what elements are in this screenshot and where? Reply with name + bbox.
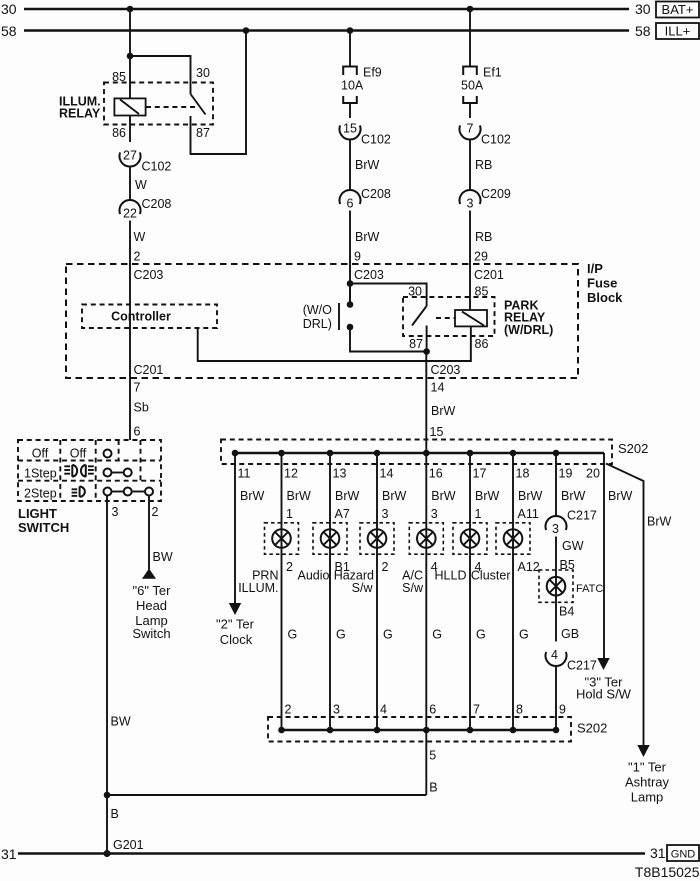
svg-text:DRL): DRL) bbox=[303, 317, 332, 331]
wire W/O DRL lower to junction 87 bbox=[350, 327, 427, 352]
svg-text:BrW: BrW bbox=[355, 230, 380, 244]
wire branch 12 PRN illum bbox=[281, 453, 283, 730]
svg-text:19: 19 bbox=[559, 467, 573, 481]
svg-text:C209: C209 bbox=[481, 187, 511, 201]
svg-text:T8B15025: T8B15025 bbox=[635, 864, 700, 880]
connector C102 pin 27 bbox=[120, 152, 141, 166]
svg-text:Head: Head bbox=[136, 598, 167, 613]
svg-text:Ef1: Ef1 bbox=[483, 66, 502, 80]
svg-text:W: W bbox=[135, 178, 147, 192]
park relay coil-blade link bbox=[436, 317, 455, 319]
svg-text:Clock: Clock bbox=[220, 632, 253, 647]
svg-text:RELAY: RELAY bbox=[59, 107, 101, 121]
wire diagonal to ashtray lamp bbox=[606, 464, 644, 746]
svg-text:BrW: BrW bbox=[355, 158, 380, 172]
svg-text:S202: S202 bbox=[577, 721, 607, 736]
svg-text:Sb: Sb bbox=[134, 401, 149, 415]
junction 87 output bbox=[423, 348, 430, 355]
I/P Fuse Block dashed box bbox=[66, 264, 578, 378]
illum relay coil bbox=[114, 98, 145, 115]
svg-text:9: 9 bbox=[559, 703, 566, 717]
lamp A/C S/w (pins 3/4) bbox=[409, 523, 443, 554]
svg-text:G: G bbox=[519, 628, 529, 642]
wire branch 14 hazard bbox=[376, 453, 378, 730]
wire option W/O DRL upper stub bbox=[349, 284, 351, 305]
wire BrW down to C203 pin 9 bbox=[349, 211, 351, 305]
svg-text:85: 85 bbox=[112, 70, 126, 84]
svg-text:"1" Ter: "1" Ter bbox=[628, 760, 667, 775]
svg-text:Off: Off bbox=[70, 447, 87, 461]
wire branch to park relay contact 30 bbox=[350, 284, 427, 307]
svg-text:10A: 10A bbox=[341, 79, 364, 93]
arrow from 6 Ter Head Lamp Switch bbox=[142, 569, 156, 579]
svg-text:2: 2 bbox=[134, 250, 141, 264]
svg-text:BrW: BrW bbox=[287, 489, 312, 503]
svg-text:87: 87 bbox=[409, 337, 423, 351]
svg-text:6: 6 bbox=[347, 197, 354, 211]
svg-text:Cluster: Cluster bbox=[471, 569, 511, 583]
svg-text:58: 58 bbox=[635, 23, 651, 39]
svg-text:W: W bbox=[134, 230, 146, 244]
lamp Hazard S/w (pins 3/2) bbox=[360, 523, 394, 554]
wire terminal 2 BW to head lamp switch bbox=[148, 496, 150, 570]
svg-text:BrW: BrW bbox=[335, 489, 360, 503]
park relay coil bbox=[455, 310, 487, 326]
illum relay switch blade bbox=[191, 94, 206, 115]
node BAT+ box bbox=[656, 2, 699, 18]
svg-text:C208: C208 bbox=[142, 197, 172, 211]
svg-text:Hold S/W: Hold S/W bbox=[576, 687, 632, 702]
svg-text:B: B bbox=[429, 781, 437, 795]
icon head lamp 2Step bbox=[72, 488, 78, 490]
junctions on bottom splice bbox=[278, 727, 285, 734]
wire illum relay contact 87 down bbox=[191, 31, 247, 155]
park relay switch blade bbox=[412, 306, 427, 326]
svg-text:"2" Ter: "2" Ter bbox=[216, 617, 255, 632]
svg-text:G: G bbox=[432, 628, 442, 642]
svg-text:17: 17 bbox=[473, 467, 487, 481]
wire branch 18 cluster bbox=[512, 453, 514, 730]
lamp PRN ILLUM (pins 1/2) bbox=[265, 523, 299, 554]
relay ILLUM. RELAY dashed box bbox=[104, 83, 213, 125]
svg-text:C208: C208 bbox=[361, 187, 391, 201]
svg-text:BrW: BrW bbox=[647, 515, 672, 529]
wire branch 17 HLLD bbox=[469, 453, 471, 730]
wire GW bbox=[555, 537, 557, 642]
svg-text:4: 4 bbox=[380, 703, 387, 717]
fuse Ef1 50A bbox=[469, 9, 471, 67]
svg-text:1: 1 bbox=[286, 507, 293, 521]
svg-text:G: G bbox=[336, 628, 346, 642]
svg-text:3: 3 bbox=[382, 507, 389, 521]
svg-text:50A: 50A bbox=[461, 79, 484, 93]
wire branch 11 to clock bbox=[234, 453, 236, 603]
arrow to 3 Ter Hold S/W bbox=[597, 658, 609, 670]
splice S202 bus bar bbox=[235, 452, 604, 455]
svg-text:S/w: S/w bbox=[402, 581, 424, 595]
wire branch 16 A/C bbox=[425, 453, 427, 730]
svg-text:2: 2 bbox=[382, 560, 389, 574]
wire coil 86 down to C102 bbox=[129, 116, 131, 143]
splice S202 bottom dashed box bbox=[268, 717, 571, 742]
svg-text:Ef9: Ef9 bbox=[363, 66, 382, 80]
lamp HLLD (pins 1/4) bbox=[453, 523, 487, 554]
controller box bbox=[82, 305, 217, 329]
svg-text:16: 16 bbox=[429, 467, 443, 481]
svg-text:5: 5 bbox=[429, 749, 436, 763]
svg-text:BrW: BrW bbox=[240, 489, 265, 503]
svg-text:1: 1 bbox=[475, 507, 482, 521]
svg-text:S/w: S/w bbox=[352, 581, 374, 595]
switch contacts row1 bbox=[104, 450, 112, 458]
lamp Audio (pins A7/B1) bbox=[313, 523, 347, 554]
connector C102 pin 15 bbox=[340, 125, 361, 139]
svg-text:Ashtray: Ashtray bbox=[625, 775, 670, 790]
wire rail 31 GND bbox=[18, 852, 645, 855]
wire from junction 87 down to S202 pin 15 bbox=[425, 352, 427, 454]
svg-text:Block: Block bbox=[587, 290, 623, 305]
svg-text:C203: C203 bbox=[134, 268, 164, 282]
svg-text:14: 14 bbox=[431, 381, 445, 395]
svg-text:G201: G201 bbox=[113, 838, 144, 852]
svg-text:SWITCH: SWITCH bbox=[18, 520, 69, 535]
svg-text:BrW: BrW bbox=[382, 489, 407, 503]
svg-text:85: 85 bbox=[475, 285, 489, 299]
svg-text:22: 22 bbox=[123, 207, 137, 221]
junction pins 11-19 on S202 bbox=[232, 450, 239, 457]
svg-text:1Step: 1Step bbox=[24, 467, 57, 481]
svg-text:C217: C217 bbox=[567, 659, 597, 673]
option bar bbox=[338, 303, 340, 330]
svg-text:18: 18 bbox=[516, 467, 530, 481]
wire B to ground run bbox=[107, 794, 427, 796]
wire rail 58 ILL+ bbox=[24, 29, 629, 32]
light switch row dividers bbox=[18, 460, 161, 462]
svg-text:8: 8 bbox=[516, 703, 523, 717]
wire W down to C203 pin 2 bbox=[129, 221, 131, 441]
node GND box bbox=[667, 845, 699, 861]
svg-text:BrW: BrW bbox=[608, 489, 633, 503]
svg-text:BrW: BrW bbox=[475, 489, 500, 503]
wire rail 30 BAT+ bbox=[24, 8, 629, 11]
junction with splice output bbox=[104, 792, 111, 799]
svg-text:RB: RB bbox=[475, 158, 492, 172]
wire W between C102 and C208 bbox=[129, 167, 131, 201]
svg-text:7: 7 bbox=[473, 703, 480, 717]
splice S202 bottom bus bar bbox=[282, 729, 557, 732]
splice S202 top dashed box bbox=[221, 440, 612, 465]
svg-text:BAT+: BAT+ bbox=[662, 2, 694, 17]
svg-text:I/P: I/P bbox=[587, 261, 603, 276]
svg-text:15: 15 bbox=[430, 425, 444, 439]
junction W/O DRL top bbox=[347, 280, 354, 287]
wire from rail 30 down to illum relay bbox=[129, 9, 131, 98]
lamp Cluster (pins A11/A12) bbox=[496, 523, 530, 554]
svg-text:Audio: Audio bbox=[298, 569, 330, 583]
svg-text:86: 86 bbox=[112, 126, 126, 140]
wire RB between C102-7 and C209-3 bbox=[469, 140, 471, 191]
svg-text:A11: A11 bbox=[518, 507, 539, 521]
wire splice output pin 5 bbox=[425, 730, 427, 795]
icon park lamps 1Step bbox=[64, 465, 70, 467]
light switch box bbox=[18, 440, 161, 501]
svg-text:29: 29 bbox=[474, 250, 488, 264]
svg-text:3: 3 bbox=[552, 522, 559, 536]
svg-text:14: 14 bbox=[380, 467, 394, 481]
junction W/O DRL upper bbox=[347, 301, 354, 308]
connector C217 pin 3 bbox=[546, 516, 567, 530]
svg-text:C102: C102 bbox=[481, 133, 511, 147]
svg-text:7: 7 bbox=[467, 122, 474, 136]
svg-text:C217: C217 bbox=[567, 509, 597, 523]
svg-text:G: G bbox=[383, 628, 393, 642]
wire branch 20 to hold switch bbox=[603, 453, 605, 660]
svg-text:S202: S202 bbox=[618, 441, 648, 456]
svg-text:C203: C203 bbox=[354, 268, 384, 282]
svg-text:BrW: BrW bbox=[431, 489, 456, 503]
svg-text:(W/O: (W/O bbox=[303, 303, 332, 317]
connector C208 pin 22 bbox=[120, 200, 141, 214]
node ILL+ box bbox=[656, 23, 699, 39]
svg-text:G: G bbox=[476, 628, 486, 642]
svg-text:Controller: Controller bbox=[111, 310, 171, 324]
svg-text:BW: BW bbox=[153, 550, 173, 564]
svg-text:27: 27 bbox=[123, 149, 137, 163]
wire terminal 3 down to ground bbox=[106, 496, 108, 854]
illum relay coil-blade link bbox=[146, 106, 197, 108]
svg-text:BrW: BrW bbox=[431, 404, 456, 418]
junction branch to relay contact 30 bbox=[127, 53, 134, 60]
svg-text:GB: GB bbox=[561, 627, 579, 641]
junction W/O DRL lower bbox=[347, 324, 354, 331]
svg-text:7: 7 bbox=[134, 381, 141, 395]
svg-text:2: 2 bbox=[152, 505, 159, 519]
svg-text:87: 87 bbox=[196, 126, 210, 140]
svg-text:RB: RB bbox=[475, 230, 492, 244]
svg-text:3: 3 bbox=[467, 197, 474, 211]
arrow to 1 Ter Ashtray Lamp bbox=[637, 745, 649, 757]
svg-text:Fuse: Fuse bbox=[587, 276, 617, 291]
junction on rail 30 at Ef1 feed bbox=[467, 6, 474, 13]
svg-text:BW: BW bbox=[111, 715, 131, 729]
svg-text:30: 30 bbox=[1, 1, 17, 17]
svg-text:Switch: Switch bbox=[132, 626, 170, 641]
svg-text:(W/DRL): (W/DRL) bbox=[504, 323, 553, 337]
svg-text:15: 15 bbox=[343, 122, 357, 136]
svg-text:C201: C201 bbox=[474, 268, 504, 282]
svg-text:G: G bbox=[288, 628, 298, 642]
connector C102 pin 7 bbox=[460, 125, 481, 139]
svg-text:C102: C102 bbox=[361, 133, 391, 147]
svg-text:BrW: BrW bbox=[561, 489, 586, 503]
svg-text:B4: B4 bbox=[559, 605, 574, 619]
svg-text:6: 6 bbox=[134, 425, 141, 439]
switch contacts row2 bbox=[104, 469, 112, 477]
svg-text:BrW: BrW bbox=[518, 489, 543, 503]
svg-text:30: 30 bbox=[408, 285, 422, 299]
svg-text:9: 9 bbox=[354, 250, 361, 264]
junction on rail 58 at Ef9 feed bbox=[347, 27, 354, 34]
wire branch 13 audio bbox=[329, 453, 331, 730]
switch contacts row3 bbox=[104, 488, 112, 496]
relay PARK RELAY dashed box bbox=[403, 297, 495, 336]
fuse Ef9 10A bbox=[349, 31, 351, 67]
svg-text:31: 31 bbox=[1, 846, 17, 862]
svg-text:13: 13 bbox=[333, 467, 347, 481]
svg-text:86: 86 bbox=[475, 337, 489, 351]
wire controller output to park relay 86 bbox=[198, 326, 471, 361]
svg-text:Lamp: Lamp bbox=[631, 790, 664, 805]
svg-text:A12: A12 bbox=[518, 560, 540, 574]
svg-text:GND: GND bbox=[671, 849, 696, 861]
svg-text:B: B bbox=[111, 807, 119, 821]
svg-text:12: 12 bbox=[284, 467, 298, 481]
svg-text:2: 2 bbox=[286, 560, 293, 574]
svg-text:30: 30 bbox=[196, 66, 210, 80]
svg-text:58: 58 bbox=[1, 23, 17, 39]
svg-text:20: 20 bbox=[586, 467, 600, 481]
wire RB down to C201 pin 29 bbox=[469, 211, 471, 311]
svg-text:C201: C201 bbox=[134, 363, 164, 377]
svg-text:30: 30 bbox=[635, 1, 651, 17]
svg-text:3: 3 bbox=[112, 505, 119, 519]
junction on rail 30 at illum relay feed bbox=[127, 6, 134, 13]
svg-text:ILL+: ILL+ bbox=[665, 24, 691, 39]
light switch column dividers bbox=[59, 440, 61, 501]
wire park relay contact 87 down bbox=[426, 326, 428, 352]
svg-text:6: 6 bbox=[429, 703, 436, 717]
svg-text:31: 31 bbox=[650, 845, 666, 861]
wire branch 19 to C217 bbox=[555, 453, 557, 516]
svg-text:FATC: FATC bbox=[576, 583, 603, 595]
connector C217 pin 4 bbox=[546, 652, 567, 666]
svg-text:ILLUM.: ILLUM. bbox=[238, 581, 278, 595]
svg-text:3: 3 bbox=[431, 507, 438, 521]
svg-text:2Step: 2Step bbox=[24, 487, 57, 501]
connector C209 pin 3 bbox=[460, 190, 481, 204]
svg-text:LIGHT: LIGHT bbox=[18, 506, 57, 521]
wire BrW between C102-15 and C208-6 bbox=[349, 140, 351, 191]
junction at ground rail G201 bbox=[104, 850, 111, 857]
svg-text:A7: A7 bbox=[335, 507, 350, 521]
svg-text:3: 3 bbox=[333, 703, 340, 717]
svg-text:11: 11 bbox=[238, 467, 251, 481]
wire C217-4 down to S202 pin 9 bbox=[555, 666, 557, 730]
svg-text:2: 2 bbox=[285, 703, 292, 717]
svg-text:C203: C203 bbox=[431, 363, 461, 377]
svg-text:C102: C102 bbox=[142, 160, 172, 174]
svg-text:HLLD: HLLD bbox=[435, 569, 467, 583]
svg-text:4: 4 bbox=[551, 648, 558, 662]
svg-text:"6" Ter: "6" Ter bbox=[133, 583, 172, 598]
svg-text:Off: Off bbox=[32, 447, 49, 461]
connector C208 pin 6 bbox=[340, 190, 361, 204]
junction on rail 58 at relay output riser bbox=[243, 27, 250, 34]
svg-text:GW: GW bbox=[562, 539, 584, 553]
lamp FATC (pins B5/B4) bbox=[539, 570, 573, 602]
arrow to 2 Ter Clock bbox=[229, 603, 241, 615]
wire branch to illum relay contact 30 bbox=[130, 56, 191, 94]
